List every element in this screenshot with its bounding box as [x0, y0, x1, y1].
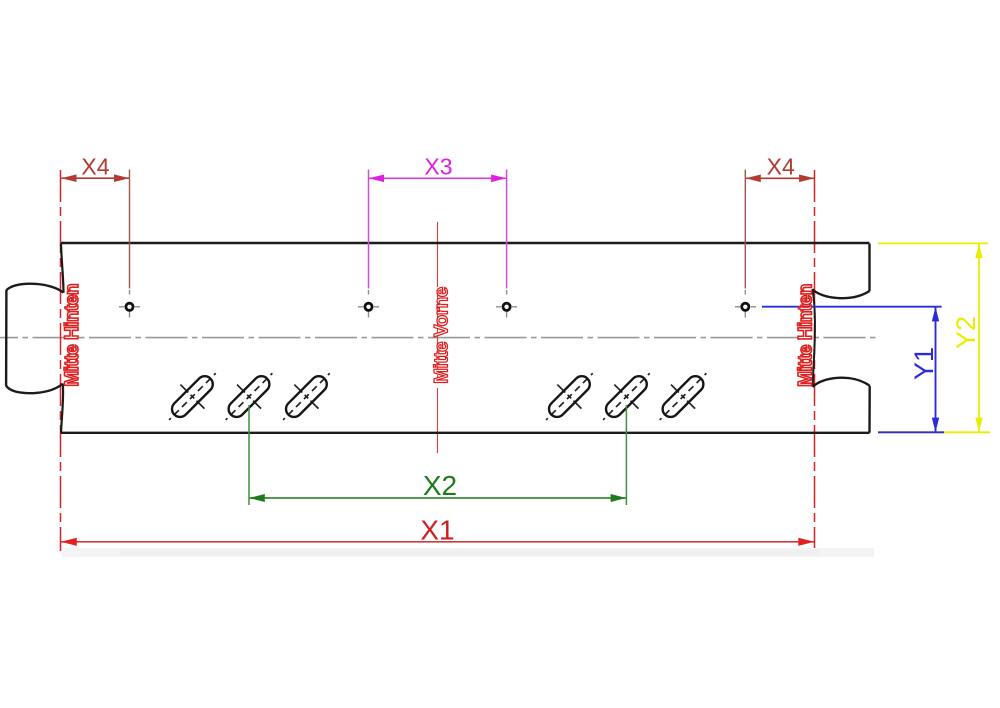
hole H1: [126, 303, 133, 310]
centerline Mitte Vorne: [437, 222, 439, 455]
dimension X4 left arrows: [61, 174, 129, 182]
svg-text:Mitte Vorne: Mitte Vorne: [432, 287, 453, 384]
dimension X4 left extension line: [129, 170, 131, 289]
dimension Y2 extension line top: [878, 242, 988, 244]
centerline Mitte Hinten left: [60, 170, 62, 551]
svg-text:X4: X4: [767, 154, 795, 180]
svg-text:X3: X3: [424, 154, 452, 180]
centerline Mitte Hinten right: [814, 170, 816, 551]
dimension Y1 arrows: [932, 307, 939, 432]
dimension X3 arrows: [369, 175, 507, 183]
slot S2: [214, 361, 285, 432]
part outline right edge upper: [868, 244, 870, 291]
dimension X2 extension line left: [248, 405, 250, 505]
slot S1: [157, 361, 228, 432]
dimension Y2 arrows: [975, 244, 982, 433]
hole H2: [365, 303, 372, 310]
hole H2 crosshair: [358, 290, 379, 318]
hole H4: [742, 303, 749, 310]
dimension X1 arrows: [61, 538, 815, 546]
svg-text:X2: X2: [423, 470, 457, 501]
end tab bottom arc: [6, 384, 63, 394]
svg-text:X4: X4: [81, 154, 109, 180]
dimension X4 left line: [62, 177, 130, 179]
end tab left edge: [5, 290, 8, 385]
hole H3 crosshair: [496, 290, 517, 318]
hole H4 crosshair: [735, 290, 756, 318]
svg-text:Mitte Hinten: Mitte Hinten: [62, 284, 83, 387]
dimension Y1 line: [935, 307, 937, 432]
svg-text:Y1: Y1: [909, 347, 939, 380]
joggle break bottom arc: [813, 378, 870, 387]
part outline top edge: [61, 242, 870, 244]
dimension Y2 line: [978, 244, 980, 432]
end tab top arc: [6, 284, 63, 293]
part outline bottom edge: [61, 432, 870, 434]
hole H3: [503, 303, 510, 310]
part outline left edge upper: [61, 244, 64, 293]
dimension X2 line: [250, 497, 627, 499]
slot S5: [591, 361, 662, 432]
dimension Y2 extension line bottom: [878, 431, 990, 433]
svg-text:X1: X1: [420, 514, 454, 545]
dimension X1 line: [61, 541, 814, 543]
dimension X3 line: [369, 177, 506, 179]
joggle break top arc: [812, 289, 869, 298]
ghost watermark band: [62, 548, 874, 557]
dimension X2 extension line right: [625, 405, 627, 505]
horizontal centerline: [0, 337, 876, 339]
dimension X3 extension line right: [506, 170, 508, 289]
slot S3: [271, 361, 342, 432]
svg-text:Y2: Y2: [951, 316, 981, 349]
dimension X2 arrows: [249, 494, 626, 502]
slot S6: [648, 361, 719, 432]
dimension X4 right arrows: [746, 175, 815, 183]
part outline right edge lower: [868, 386, 871, 433]
hole H1 crosshair: [119, 290, 140, 318]
svg-text:Mitte Hinten: Mitte Hinten: [796, 284, 817, 387]
part outline left edge lower: [61, 384, 63, 433]
dimension Y1 extension line bottom: [878, 431, 944, 433]
joggle break vertical curve: [812, 289, 815, 387]
dimension X3 extension line left: [368, 170, 370, 289]
slot S4: [534, 361, 605, 432]
dimension Y1 extension line top: [762, 306, 942, 308]
dimension X4 right extension line: [744, 170, 746, 289]
dimension X4 right line: [746, 177, 814, 179]
